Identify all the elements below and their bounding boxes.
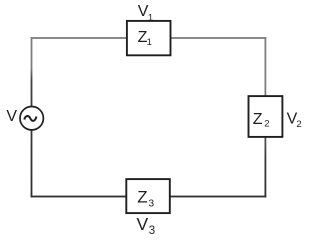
svg-text:V: V [6,108,17,125]
svg-text:2: 2 [264,118,269,129]
svg-text:2: 2 [296,119,301,130]
impedance Z2 (right box) [249,96,283,137]
wire: right vertical (Z2 branch) [265,37,267,197]
label V1 (voltage across Z1) [138,3,153,23]
wire: bottom horizontal (Z3 return path) [31,196,267,198]
label V2 (voltage across Z2) [287,111,302,131]
svg-text:V: V [137,214,149,234]
label V3 (voltage across Z3) [137,214,156,237]
svg-text:1: 1 [148,12,153,23]
svg-text:3: 3 [149,199,155,210]
wire: left vertical (source branch) [31,37,33,197]
impedance Z1 (top box) [127,21,171,55]
wire: top horizontal (source node to Z1 to Z2) [31,37,267,39]
svg-text:Z: Z [253,111,263,128]
AC voltage source (circle with sine) [20,107,43,130]
impedance Z3 (bottom box) [126,179,170,213]
svg-text:3: 3 [149,225,155,237]
svg-text:Z: Z [137,188,147,207]
svg-text:1: 1 [147,37,152,48]
